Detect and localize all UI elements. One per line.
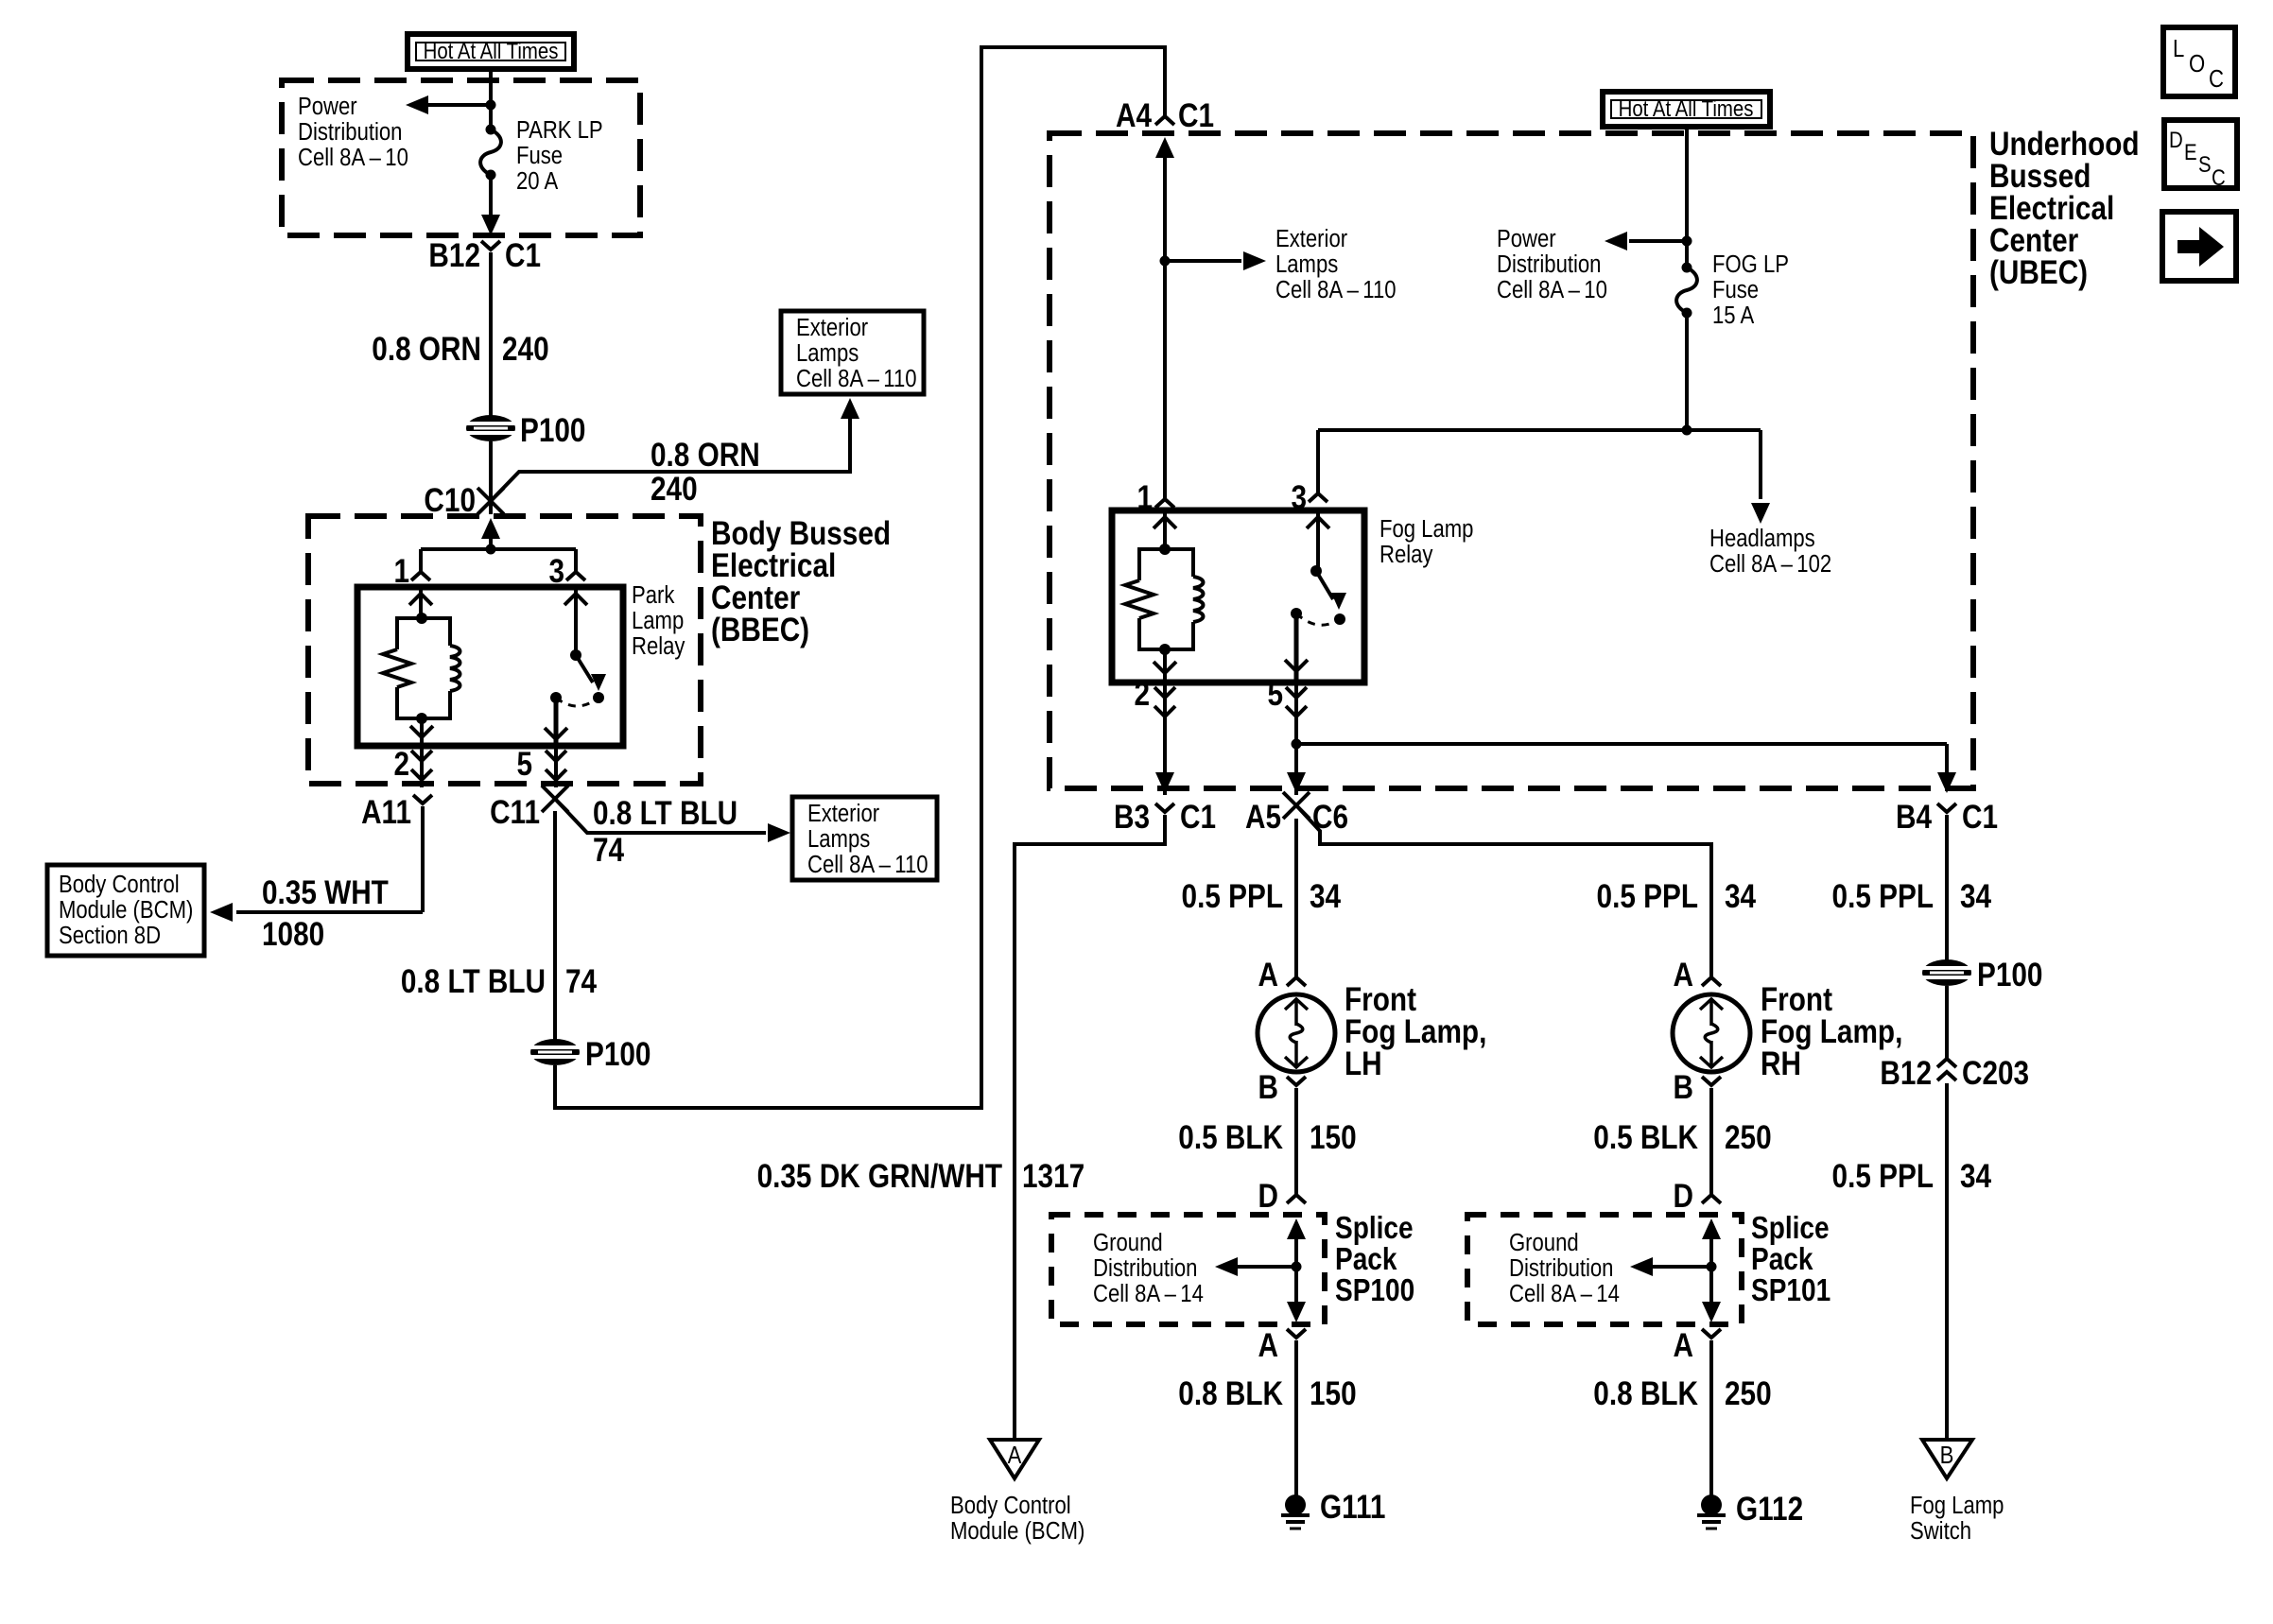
- fog relay pin 5 wire: [1285, 613, 1308, 682]
- label Body Bussed Electrical Center (BBEC): [711, 515, 891, 648]
- svg-text:Fuse: Fuse: [1712, 276, 1759, 303]
- svg-text:SP101: SP101: [1751, 1273, 1831, 1308]
- wire SP100 to G111: [1294, 1340, 1298, 1496]
- UBEC right dashed box: [1050, 133, 1973, 788]
- lamp Front Fog Lamp LH: [1258, 994, 1335, 1072]
- svg-text:Cell 8A – 10: Cell 8A – 10: [1497, 276, 1607, 303]
- fog relay pin 1 lead: [1136, 479, 1174, 516]
- svg-text:A: A: [1674, 1327, 1693, 1364]
- connector B12 C1: [428, 237, 541, 274]
- svg-text:15 A: 15 A: [1712, 302, 1755, 329]
- park relay coil/resistor: [383, 613, 460, 724]
- svg-text:S: S: [2198, 151, 2212, 177]
- svg-text:RH: RH: [1761, 1045, 1801, 1082]
- svg-text:0.5 PPL: 0.5 PPL: [1597, 878, 1698, 915]
- wire from Hot At All Times into UBEC: [489, 69, 493, 101]
- svg-text:Front: Front: [1345, 981, 1416, 1018]
- fog relay coil/resistor: [1125, 544, 1204, 655]
- fuse FOG LP 15 A: [1676, 241, 1697, 430]
- svg-text:D: D: [1674, 1178, 1693, 1215]
- svg-text:34: 34: [1310, 878, 1341, 915]
- svg-text:Body Bussed: Body Bussed: [711, 515, 891, 552]
- svg-text:0.8 LT BLU: 0.8 LT BLU: [401, 963, 546, 1000]
- wire C11 down 0.8 LT BLU: [553, 811, 557, 1040]
- svg-text:Cell 8A – 110: Cell 8A – 110: [807, 851, 928, 878]
- wire A4 into UBEC: [1155, 137, 1174, 261]
- svg-text:SP100: SP100: [1335, 1273, 1414, 1308]
- label 0.35 DK GRN/WHT 1317: [757, 1158, 1085, 1195]
- fog relay switch pivot: [1310, 565, 1322, 577]
- svg-text:PARK LP: PARK LP: [516, 116, 603, 144]
- svg-text:Distribution: Distribution: [298, 118, 402, 146]
- svg-text:P100: P100: [1977, 957, 2042, 993]
- svg-text:Pack: Pack: [1751, 1242, 1813, 1277]
- svg-text:Ground: Ground: [1093, 1229, 1163, 1256]
- label 0.5 PPL 34 (switch upper): [1832, 878, 1992, 915]
- svg-text:0.8 BLK: 0.8 BLK: [1178, 1375, 1283, 1412]
- relay K1 Park Lamp Relay box: [357, 587, 623, 746]
- svg-text:C1: C1: [505, 237, 541, 274]
- svg-text:0.8 ORN: 0.8 ORN: [651, 437, 760, 474]
- svg-text:Relay: Relay: [632, 632, 685, 660]
- connector C10: [424, 482, 504, 519]
- connector A5 C6: [1245, 792, 1348, 836]
- label 0.35 WHT 1080: [262, 874, 389, 953]
- svg-text:Center: Center: [711, 579, 801, 616]
- wire C203 to fog lamp switch: [1945, 1083, 1949, 1438]
- wire 0.8 ORN 240 (vertical): [489, 252, 493, 416]
- legend arrow box: [2162, 212, 2236, 281]
- svg-text:34: 34: [1725, 878, 1756, 915]
- label Body Control Module (BCM) bottom: [950, 1492, 1084, 1545]
- svg-text:B12: B12: [1880, 1055, 1932, 1092]
- label Power Distribution Cell 8A-10 (right): [1497, 225, 1607, 303]
- svg-text:0.8 LT BLU: 0.8 LT BLU: [593, 795, 737, 832]
- legend DESC box: [2164, 120, 2237, 190]
- wire P100 to fog lamp feed (long run): [555, 47, 1165, 1108]
- label 0.5 PPL 34 (switch lower): [1832, 1158, 1992, 1195]
- connector P100 (left): [466, 412, 585, 449]
- svg-text:B12: B12: [428, 237, 480, 274]
- pin A below SP101: [1674, 1327, 1721, 1364]
- svg-text:Module (BCM): Module (BCM): [59, 896, 193, 924]
- svg-text:Lamps: Lamps: [1275, 251, 1338, 278]
- svg-text:D: D: [1258, 1178, 1278, 1215]
- reference box Exterior Lamps Cell 8A-110 (mid left): [792, 797, 937, 880]
- label Underhood Bussed Electrical Center (UBEC) right: [1989, 126, 2140, 291]
- svg-text:Cell 8A – 110: Cell 8A – 110: [796, 365, 917, 392]
- svg-text:Center: Center: [1989, 222, 2079, 259]
- pin B RH: [1674, 1069, 1721, 1106]
- svg-text:Body Control: Body Control: [950, 1492, 1071, 1519]
- wire SP101 to G112: [1709, 1340, 1713, 1496]
- svg-text:Lamps: Lamps: [807, 825, 870, 853]
- svg-text:Body Control: Body Control: [59, 871, 180, 898]
- ground G111: [1281, 1489, 1385, 1529]
- splice SP100 internal wire: [1287, 1218, 1306, 1322]
- svg-text:Underhood: Underhood: [1989, 126, 2140, 163]
- wire entering BBEC at C10: [481, 518, 500, 549]
- park relay switch contacts: [550, 692, 604, 706]
- svg-text:A: A: [1674, 957, 1693, 993]
- svg-text:150: 150: [1310, 1119, 1357, 1156]
- node junction to Exterior Lamps: [1160, 256, 1171, 267]
- wire to right fog lamp branch B4: [1296, 744, 1956, 793]
- svg-text:Hot At All Times: Hot At All Times: [1619, 95, 1754, 121]
- svg-text:Ground: Ground: [1509, 1229, 1579, 1256]
- svg-text:G112: G112: [1736, 1491, 1803, 1528]
- svg-text:20 A: 20 A: [516, 167, 559, 195]
- svg-text:Fuse: Fuse: [516, 142, 563, 169]
- svg-text:Pack: Pack: [1335, 1242, 1397, 1277]
- svg-text:Hot At All Times: Hot At All Times: [424, 38, 559, 63]
- park relay pin 1 lead: [393, 549, 430, 590]
- connector B4 C1: [1896, 799, 1998, 836]
- park relay switch input: [564, 587, 587, 655]
- svg-text:A11: A11: [361, 794, 411, 831]
- svg-text:Distribution: Distribution: [1497, 251, 1601, 278]
- svg-text:Cell 8A – 14: Cell 8A – 14: [1093, 1280, 1204, 1307]
- pin A LH: [1258, 957, 1306, 993]
- svg-text:B3: B3: [1114, 799, 1150, 836]
- connector C11: [490, 786, 568, 831]
- svg-text:2: 2: [393, 746, 409, 783]
- svg-text:2: 2: [1134, 676, 1150, 713]
- svg-text:0.5 PPL: 0.5 PPL: [1832, 878, 1934, 915]
- svg-text:P100: P100: [585, 1036, 651, 1073]
- ground G112: [1697, 1491, 1803, 1529]
- svg-text:Cell 8A – 102: Cell 8A – 102: [1709, 550, 1831, 578]
- wire arrow to Ground Distribution (SP100): [1215, 1257, 1296, 1276]
- svg-text:A: A: [1008, 1442, 1023, 1469]
- svg-text:Distribution: Distribution: [1093, 1254, 1197, 1282]
- node junction fog lamp splice: [1292, 739, 1302, 750]
- fog relay pin 3 lead: [1291, 430, 1327, 516]
- splice SP101 internal wire: [1702, 1218, 1721, 1322]
- connector P100 (switch): [1922, 957, 2042, 993]
- power label box: Hot At All Times (left): [408, 34, 574, 69]
- svg-text:Exterior: Exterior: [796, 314, 868, 341]
- wire arrow to Body Control Module: [210, 903, 423, 922]
- park relay pin 5 wire: [545, 698, 567, 746]
- svg-text:C: C: [2212, 164, 2226, 190]
- svg-text:240: 240: [651, 471, 698, 508]
- svg-text:D: D: [2169, 127, 2183, 152]
- svg-text:240: 240: [502, 331, 549, 368]
- svg-text:250: 250: [1725, 1375, 1772, 1412]
- pin B LH: [1258, 1069, 1306, 1106]
- svg-text:Lamps: Lamps: [796, 339, 859, 367]
- svg-text:A: A: [1258, 957, 1278, 993]
- svg-text:Fog Lamp,: Fog Lamp,: [1761, 1013, 1902, 1050]
- svg-text:B: B: [1258, 1069, 1278, 1106]
- label Splice Pack SP100: [1335, 1211, 1414, 1308]
- UBEC left dashed box: [282, 80, 640, 235]
- svg-text:Power: Power: [1497, 225, 1556, 252]
- svg-text:34: 34: [1960, 878, 1991, 915]
- label Fog Lamp Switch: [1910, 1492, 2004, 1545]
- svg-text:150: 150: [1310, 1375, 1357, 1412]
- svg-text:34: 34: [1960, 1158, 1991, 1195]
- svg-text:0.8 ORN: 0.8 ORN: [372, 331, 481, 368]
- svg-text:B: B: [1674, 1069, 1693, 1106]
- svg-text:Bussed: Bussed: [1989, 158, 2091, 195]
- wire lamp RH to splice: [1709, 1088, 1713, 1194]
- splice pack SP101 dashed box: [1467, 1215, 1742, 1324]
- svg-text:Electrical: Electrical: [1989, 190, 2114, 227]
- node junction on headlamp bus: [1682, 425, 1692, 436]
- label Ground Distribution Cell 8A-14 (SP101): [1509, 1229, 1620, 1307]
- svg-text:1317: 1317: [1022, 1158, 1084, 1195]
- label Exterior Lamps Cell 8A-110 (mid): [1275, 225, 1397, 303]
- wire arrow to Power Distribution (left): [406, 95, 491, 114]
- fog relay coil input: [1154, 510, 1176, 549]
- relay K2 Fog Lamp Relay box: [1112, 510, 1364, 682]
- svg-text:Switch: Switch: [1910, 1517, 1971, 1545]
- svg-text:C1: C1: [1180, 799, 1216, 836]
- svg-text:250: 250: [1725, 1119, 1772, 1156]
- splice pack SP100 dashed box: [1051, 1215, 1325, 1324]
- wire arrow to Power Distribution (right): [1605, 232, 1687, 251]
- svg-text:Module (BCM): Module (BCM): [950, 1517, 1084, 1545]
- svg-text:(UBEC): (UBEC): [1989, 254, 2088, 291]
- svg-text:Headlamps: Headlamps: [1709, 525, 1815, 552]
- label PARK LP Fuse 20 A: [516, 116, 603, 195]
- fog relay switch blade: [1316, 571, 1346, 610]
- park relay pin 2 exit: [393, 746, 432, 787]
- node: junction at PARK LP fuse feed: [486, 100, 496, 111]
- wire arrow to Exterior Lamps (mid): [1165, 251, 1266, 270]
- svg-text:0.5 BLK: 0.5 BLK: [1178, 1119, 1283, 1156]
- label Fog Lamp Relay: [1379, 515, 1473, 568]
- svg-text:Relay: Relay: [1379, 541, 1432, 568]
- off-page triangle B to Fog Lamp Switch: [1922, 1440, 1972, 1478]
- svg-text:Splice: Splice: [1751, 1211, 1830, 1246]
- wire lamp LH to splice: [1294, 1088, 1298, 1194]
- svg-text:Exterior: Exterior: [1275, 225, 1347, 252]
- label 0.5 PPL 34 (RH): [1597, 878, 1757, 915]
- pin D RH: [1674, 1178, 1721, 1215]
- label 0.8 ORN 240: [372, 331, 548, 368]
- svg-text:C: C: [2209, 65, 2224, 93]
- label Headlamps Cell 8A-102: [1709, 525, 1831, 578]
- svg-text:Cell 8A – 110: Cell 8A – 110: [1275, 276, 1397, 303]
- wire bus to fog relay pin 3 and headlamps: [1318, 428, 1761, 432]
- svg-text:5: 5: [516, 746, 532, 783]
- fog relay coil output: [1154, 649, 1176, 682]
- label 0.8 LT BLU 74 (vertical): [401, 963, 597, 1000]
- lamp Front Fog Lamp RH: [1673, 994, 1750, 1072]
- label 0.5 PPL 34 (LH): [1182, 878, 1342, 915]
- svg-text:Fog Lamp,: Fog Lamp,: [1345, 1013, 1486, 1050]
- wire A11 to BCM arrow: [421, 806, 425, 912]
- label Ground Distribution Cell 8A-14 (SP100): [1093, 1229, 1204, 1307]
- label Splice Pack SP101: [1751, 1211, 1831, 1308]
- BBEC bus to relay pins 1 and 3: [421, 544, 576, 555]
- svg-text:Splice: Splice: [1335, 1211, 1414, 1246]
- pin A below SP100: [1258, 1327, 1306, 1364]
- label 0.8 ORN 240 (branch): [651, 437, 760, 508]
- svg-text:0.35 DK GRN/WHT: 0.35 DK GRN/WHT: [757, 1158, 1003, 1195]
- node junction at FOG LP fuse feed: [1682, 236, 1692, 247]
- svg-text:Fog Lamp: Fog Lamp: [1379, 515, 1473, 543]
- wire A5 to front fog lamp LH: [1294, 819, 1298, 976]
- svg-text:C203: C203: [1962, 1055, 2029, 1092]
- label 0.5 BLK 150: [1178, 1119, 1356, 1156]
- label Front Fog Lamp LH: [1345, 981, 1486, 1082]
- park relay coil input: [409, 587, 432, 618]
- connector B12 C203: [1880, 1055, 2029, 1092]
- svg-text:Distribution: Distribution: [1509, 1254, 1613, 1282]
- fog relay pin 5 exit: [1267, 676, 1307, 795]
- svg-text:(BBEC): (BBEC): [711, 612, 809, 648]
- legend LOC box: [2163, 27, 2235, 96]
- label 0.8 LT BLU 74 (branch): [593, 795, 737, 869]
- pin D LH: [1258, 1178, 1306, 1215]
- connector A11: [361, 794, 432, 831]
- svg-text:Front: Front: [1761, 981, 1832, 1018]
- park relay switch blade: [576, 655, 606, 691]
- svg-text:Section 8D: Section 8D: [59, 922, 161, 949]
- svg-text:C11: C11: [490, 794, 540, 831]
- wire branch 0.8 LT BLU 74 to Exterior Lamps: [555, 799, 790, 842]
- label 0.8 BLK 250: [1593, 1375, 1771, 1412]
- BBEC dashed box: [308, 516, 701, 784]
- svg-text:A: A: [1258, 1327, 1278, 1364]
- wire to fog relay pin 1: [1163, 261, 1167, 498]
- connector P100 (second): [530, 1036, 651, 1073]
- node SP100 junction: [1292, 1262, 1302, 1272]
- label FOG LP Fuse 15 A: [1712, 251, 1789, 329]
- svg-text:0.5 PPL: 0.5 PPL: [1182, 878, 1283, 915]
- label Park Lamp Relay: [632, 581, 685, 660]
- label Front Fog Lamp RH: [1761, 981, 1902, 1082]
- label 0.8 BLK 150: [1178, 1375, 1356, 1412]
- svg-text:FOG LP: FOG LP: [1712, 251, 1789, 278]
- wire P100 to C10: [489, 441, 493, 514]
- svg-text:Power: Power: [298, 93, 357, 120]
- svg-text:Exterior: Exterior: [807, 800, 879, 827]
- wire arrow to Ground Distribution (SP101): [1630, 1257, 1711, 1276]
- svg-text:0.5 PPL: 0.5 PPL: [1832, 1158, 1934, 1195]
- pin A RH: [1674, 957, 1721, 993]
- svg-text:L: L: [2173, 35, 2184, 62]
- svg-text:Cell 8A – 10: Cell 8A – 10: [298, 144, 408, 171]
- reference box Body Control Module (BCM) Section 8D: [47, 865, 204, 956]
- wire P100 to C203: [1945, 986, 1949, 1059]
- svg-text:O: O: [2189, 50, 2205, 78]
- svg-text:Fog Lamp: Fog Lamp: [1910, 1492, 2004, 1519]
- svg-text:B4: B4: [1896, 799, 1932, 836]
- svg-text:P100: P100: [520, 412, 585, 449]
- wire arrow to Headlamps: [1751, 430, 1770, 524]
- label Power Distribution Cell 8A-10 (left): [298, 93, 408, 171]
- fog relay switch contacts: [1291, 608, 1345, 625]
- svg-text:B: B: [1940, 1442, 1954, 1469]
- svg-text:Park: Park: [632, 581, 675, 609]
- wire from Hot At All Times (right): [1685, 127, 1689, 237]
- svg-text:A4: A4: [1116, 97, 1152, 134]
- connector A4 C1: [1116, 97, 1214, 134]
- svg-text:74: 74: [593, 832, 624, 869]
- svg-text:LH: LH: [1345, 1045, 1382, 1082]
- svg-text:Lamp: Lamp: [632, 607, 684, 634]
- wire B3 to BCM (0.35 DK GRN/WHT): [1015, 815, 1165, 1438]
- fuse PARK LP 20 A: [480, 105, 501, 235]
- power label box Hot At All Times (right): [1603, 92, 1770, 127]
- svg-text:E: E: [2184, 139, 2197, 164]
- off-page triangle A to Body Control Module: [990, 1440, 1039, 1478]
- park relay pin 3 lead: [548, 549, 585, 590]
- svg-text:Electrical: Electrical: [711, 547, 836, 584]
- connector B3 C1: [1114, 799, 1216, 836]
- park relay switch pivot: [570, 649, 581, 661]
- svg-text:1080: 1080: [262, 916, 324, 953]
- svg-text:0.5 BLK: 0.5 BLK: [1593, 1119, 1698, 1156]
- svg-text:74: 74: [565, 963, 597, 1000]
- svg-text:0.35 WHT: 0.35 WHT: [262, 874, 389, 911]
- wire A5 branch to fog lamp RH: [1296, 805, 1711, 976]
- fog relay pin 2 exit: [1134, 676, 1175, 795]
- svg-text:5: 5: [1267, 676, 1283, 713]
- wire branch 0.8 ORN 240 to Exterior Lamps: [491, 398, 859, 501]
- svg-text:0.8 BLK: 0.8 BLK: [1593, 1375, 1698, 1412]
- park relay coil output: [410, 718, 433, 746]
- svg-text:C10: C10: [424, 482, 476, 519]
- park relay pin 5 exit: [516, 746, 566, 787]
- svg-text:A5: A5: [1245, 799, 1281, 836]
- label 0.5 BLK 250: [1593, 1119, 1771, 1156]
- svg-text:Cell 8A – 14: Cell 8A – 14: [1509, 1280, 1620, 1307]
- wire B4 to fog lamp switch (0.5 PPL): [1945, 815, 1949, 960]
- fog relay switch input: [1307, 510, 1329, 571]
- svg-text:C1: C1: [1178, 97, 1214, 134]
- node SP101 junction: [1707, 1262, 1717, 1272]
- svg-text:G111: G111: [1320, 1489, 1385, 1526]
- reference box Exterior Lamps Cell 8A-110 (top): [781, 311, 924, 394]
- svg-text:C1: C1: [1962, 799, 1998, 836]
